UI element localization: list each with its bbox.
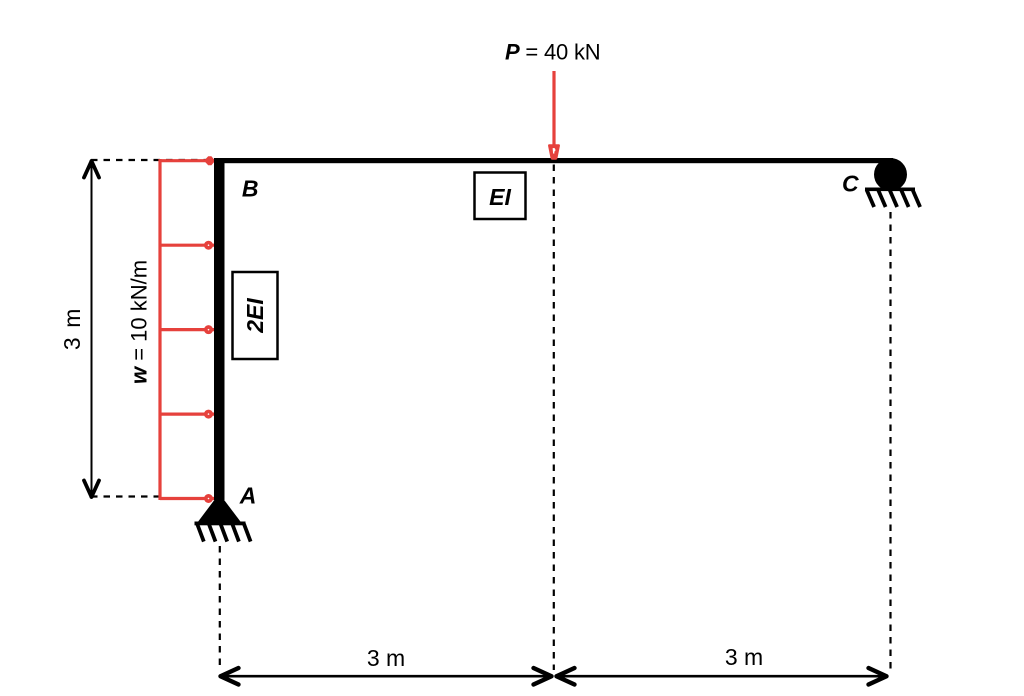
dimension line 3 m (bottom right span) [557,668,887,685]
svg-text:A: A [239,483,257,509]
load arrow 1 [160,156,215,165]
EI value box [475,173,526,220]
fixed support at A [195,494,251,542]
svg-text:EI: EI [489,184,511,210]
wire: top dashed projection line at B level [91,159,213,161]
dimension line 3 m (bottom left span) [221,668,552,685]
load arrow 2 [160,241,214,250]
svg-text:C: C [842,170,859,196]
svg-text:w = 10 kN/m: w = 10 kN/m [127,260,152,384]
load arrow 3 [160,325,214,334]
load arrow 4 [160,410,214,419]
point load P arrow [548,71,560,160]
2EI value box [233,272,278,359]
wire: dashed extension line below P [553,165,555,671]
svg-text:P = 40 kN: P = 40 kN [505,39,600,64]
wire: dashed extension line below A [219,546,221,670]
svg-text:3 m: 3 m [367,645,405,671]
member AB column (2EI) [214,158,225,500]
svg-text:2EI: 2EI [242,298,268,334]
svg-text:3 m: 3 m [725,644,763,670]
svg-text:3 m: 3 m [59,307,85,350]
svg-text:B: B [242,175,259,201]
dimension line 3 m (left vertical) [84,161,99,497]
roller support at C [865,158,920,207]
distributed load backbone line [158,159,161,500]
load arrow 5 [160,494,214,503]
member BC beam (EI) [214,158,893,163]
wire: bottom dashed projection line at A level [91,495,166,497]
wire: dashed extension line below C [889,212,891,670]
